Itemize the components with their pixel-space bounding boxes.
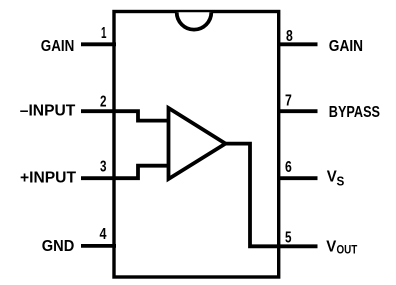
wire pin8 stub xyxy=(277,42,318,46)
svg-text:V: V xyxy=(327,169,337,186)
svg-text:GAIN: GAIN xyxy=(41,38,75,55)
op-amp U1 xyxy=(169,108,226,179)
wire op-amp output to pin5 xyxy=(224,144,318,247)
svg-text:+INPUT: +INPUT xyxy=(20,170,76,187)
svg-text:S: S xyxy=(337,175,345,189)
svg-text:5: 5 xyxy=(285,229,292,246)
package notch xyxy=(177,12,212,29)
svg-text:2: 2 xyxy=(100,93,107,110)
svg-text:GAIN: GAIN xyxy=(329,38,363,55)
wire pin1 stub xyxy=(81,42,116,46)
wire pin6 stub xyxy=(277,176,318,180)
svg-text:OUT: OUT xyxy=(337,245,358,257)
wire pin2 -input to op-amp xyxy=(81,111,169,120)
svg-text:4: 4 xyxy=(100,226,107,243)
svg-text:8: 8 xyxy=(286,28,293,45)
wire pin4 stub xyxy=(81,244,116,248)
svg-text:7: 7 xyxy=(285,92,292,109)
svg-text:6: 6 xyxy=(285,159,292,176)
wire pin3 +input to op-amp xyxy=(81,166,169,179)
svg-text:–INPUT: –INPUT xyxy=(20,103,76,120)
wire pin7 stub xyxy=(277,109,318,113)
svg-text:GND: GND xyxy=(42,238,75,255)
svg-text:1: 1 xyxy=(101,25,107,42)
svg-text:V: V xyxy=(326,238,336,255)
svg-text:3: 3 xyxy=(100,159,107,176)
IC package body xyxy=(114,12,279,278)
svg-text:BYPASS: BYPASS xyxy=(329,104,380,121)
